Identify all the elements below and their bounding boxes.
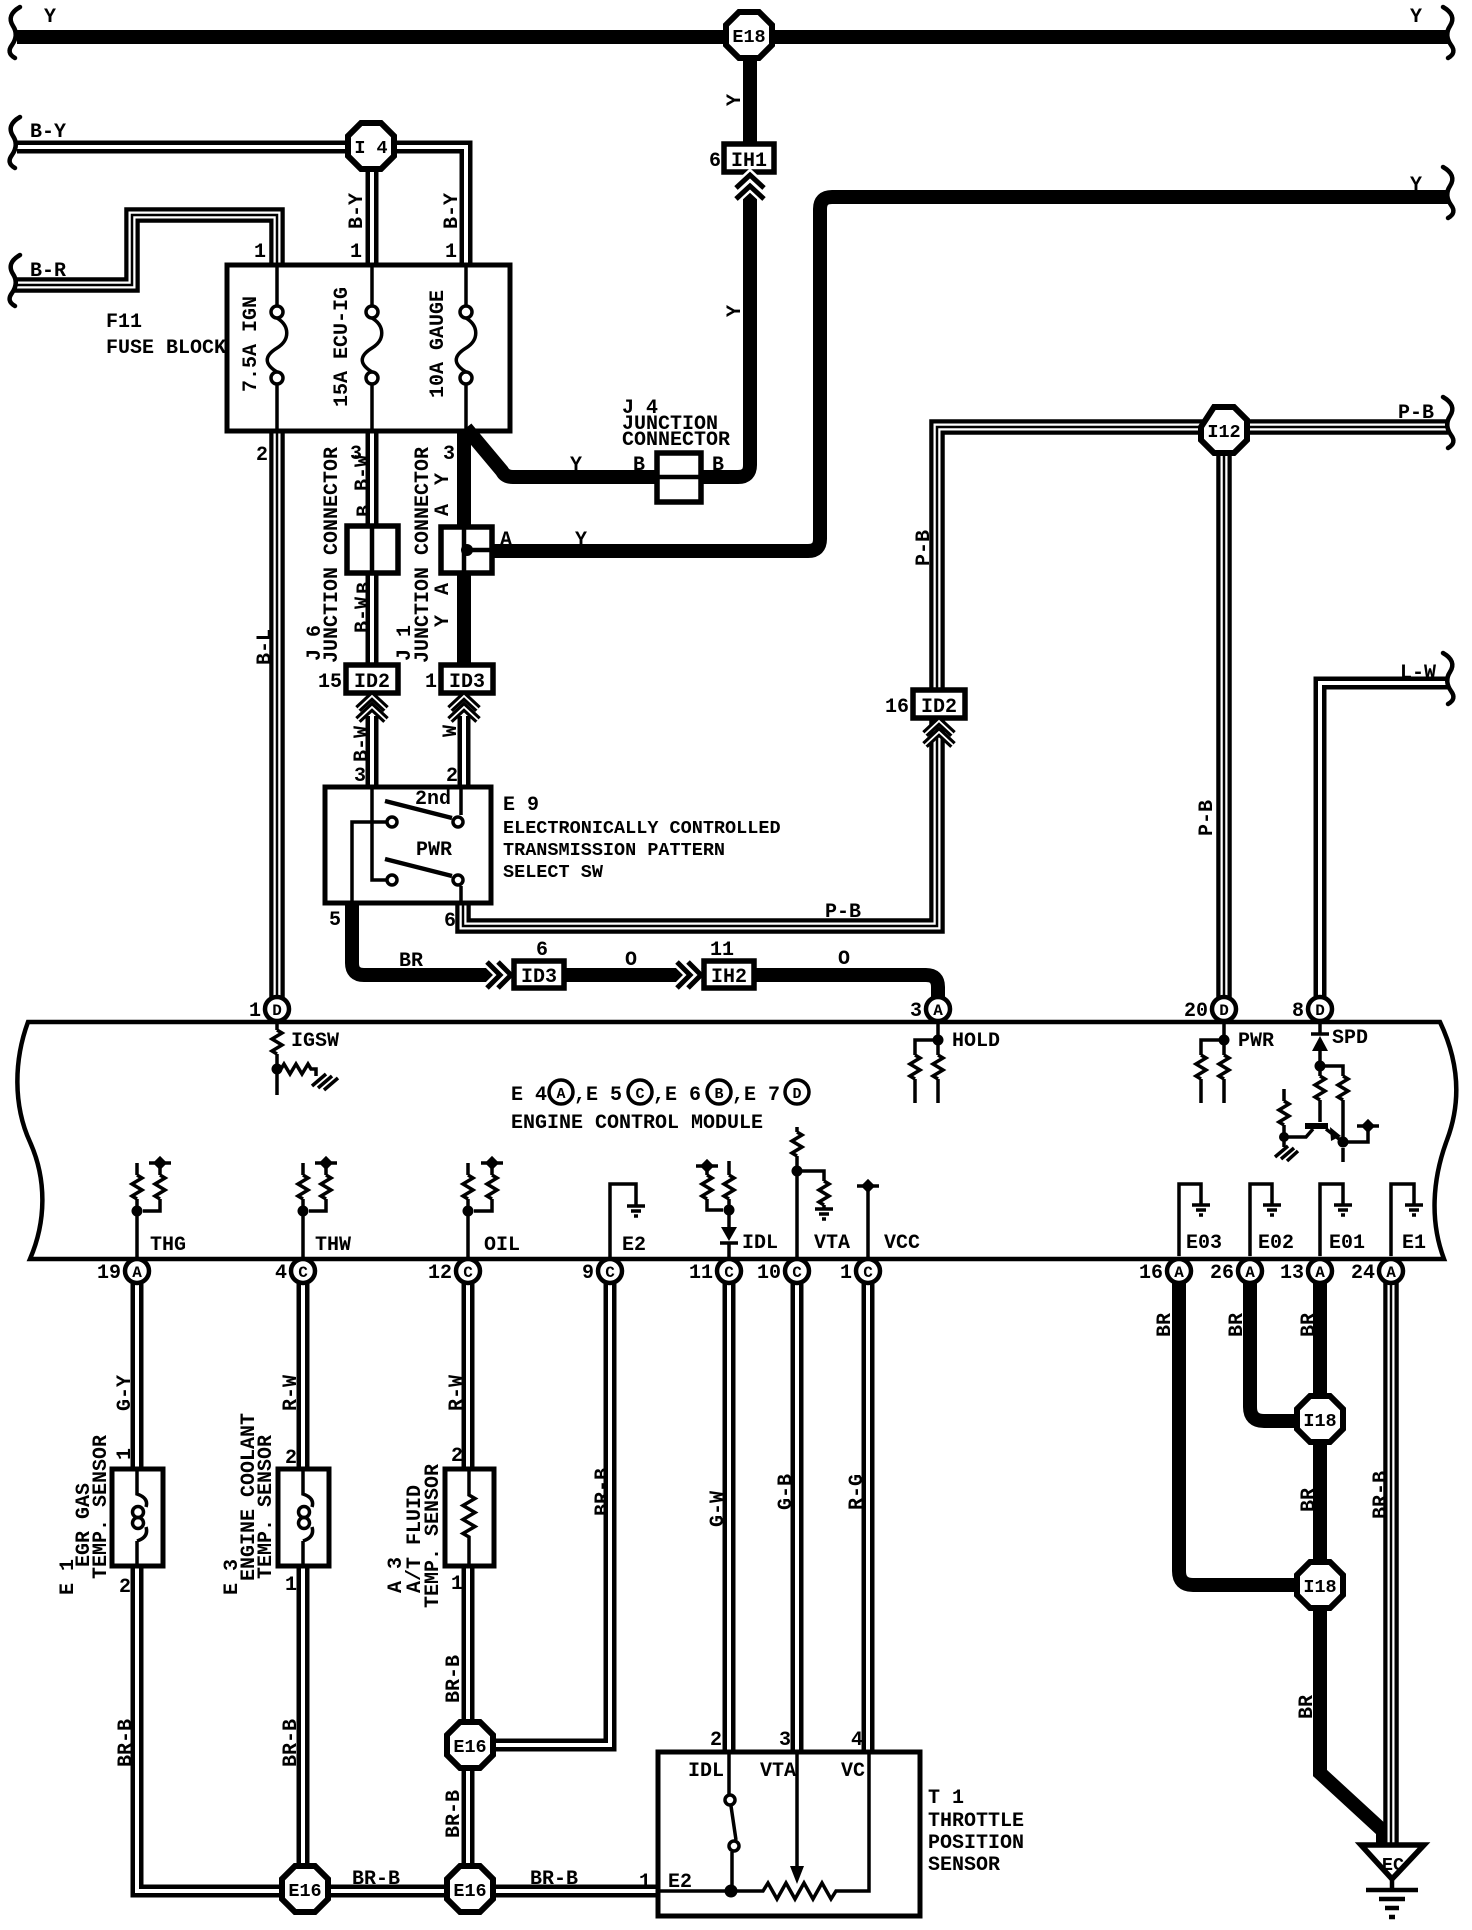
svg-text:Y: Y [1410, 6, 1422, 29]
wire P-B E9 pin6 right and up to ID2-16 connector [463, 714, 937, 926]
svg-text:R-W: R-W [280, 1375, 303, 1411]
wire P-B from I12 down to ECM pin 20 [1216, 440, 1232, 998]
wire Y thick: J1 output right, riser up, to right break [490, 197, 1448, 551]
svg-text:BR: BR [1298, 1488, 1321, 1512]
ECM pin 11 C [689, 1259, 741, 1285]
svg-text:I 4: I 4 [354, 138, 387, 159]
svg-text:ENGINE CONTROL MODULE: ENGINE CONTROL MODULE [511, 1112, 763, 1135]
connector octagon E16 bottom middle [447, 1866, 493, 1912]
svg-text:E1: E1 [1402, 1232, 1426, 1255]
wire G-Y ECM pin19 to E1 sensor [131, 1282, 144, 1469]
connector box ID3 with pin 1 [425, 665, 493, 694]
svg-text:,E 6: ,E 6 [653, 1084, 701, 1107]
connector octagon I12 [1201, 407, 1247, 453]
svg-text:C: C [463, 1264, 473, 1282]
VTA divider resistors [792, 1127, 829, 1258]
ECM pin 9 C [582, 1259, 622, 1285]
supply tap OIL [481, 1156, 503, 1170]
wire B-L from fuse IGN pin 2 down to ECM pin 1 [269, 432, 285, 998]
E9 internal wiring pin6 from PWR contact [459, 886, 463, 903]
svg-text:THROTTLE: THROTTLE [928, 1810, 1024, 1833]
svg-text:O: O [838, 948, 850, 971]
svg-text:4: 4 [851, 1729, 863, 1752]
svg-text:E16: E16 [453, 1881, 486, 1902]
svg-text:P-B: P-B [913, 530, 936, 566]
wire Y thick: J1 bottom down to ID3 connector [457, 573, 471, 667]
svg-text:1: 1 [425, 671, 437, 694]
ECM pin 1 C [840, 1259, 880, 1285]
svg-text:4: 4 [275, 1262, 287, 1285]
SPD circuit: diode, resistors, transistor [1311, 1022, 1329, 1066]
connector box ID3 on BR wire with pin 6 [514, 939, 564, 989]
connector octagon I18 lower [1297, 1562, 1343, 1608]
supply tap THW [315, 1156, 337, 1170]
svg-text:2: 2 [710, 1729, 722, 1752]
switch blade 2nd [385, 801, 452, 818]
ECM band outline [17, 1022, 1456, 1259]
svg-text:B-L: B-L [254, 629, 277, 665]
sensor box E3 engine coolant temp with coil [278, 1469, 329, 1566]
connector octagon I4 [348, 123, 394, 169]
svg-text:ID3: ID3 [521, 966, 557, 989]
break symbol right on wire Y lower [1443, 167, 1453, 218]
wire B-R from left break to fuse IGN pin 1 [14, 215, 277, 285]
connector octagon E16 bottom left [282, 1866, 328, 1912]
svg-text:IDL: IDL [742, 1232, 778, 1255]
svg-text:EC: EC [1382, 1855, 1404, 1876]
svg-text:13: 13 [1280, 1262, 1304, 1285]
svg-text:BR-B: BR-B [280, 1719, 303, 1767]
svg-text:12: 12 [428, 1262, 452, 1285]
svg-text:THG: THG [150, 1234, 186, 1257]
connector octagon E18 [726, 12, 772, 58]
svg-text:Y: Y [432, 473, 455, 485]
svg-text:1: 1 [350, 241, 362, 264]
connector octagon E16 first (A3 column) [447, 1722, 493, 1768]
svg-text:VTA: VTA [760, 1760, 796, 1783]
svg-text:1: 1 [254, 241, 266, 264]
wire BR/O thick: E9 pin5 through ID3 and IH2 to ECM pin 3 [352, 901, 938, 998]
earth ground below EC [1366, 1879, 1418, 1917]
svg-text:3: 3 [443, 443, 455, 466]
THW pull-up resistors [298, 1163, 331, 1258]
svg-text:BR-B: BR-B [443, 1790, 466, 1838]
svg-text:I18: I18 [1303, 1577, 1336, 1598]
svg-text:10A GAUGE: 10A GAUGE [427, 290, 450, 398]
svg-text:2: 2 [119, 1576, 131, 1599]
svg-text:P-B: P-B [1196, 800, 1219, 836]
svg-text:16: 16 [1139, 1262, 1163, 1285]
svg-text:A: A [132, 1264, 142, 1282]
svg-text:SPD: SPD [1332, 1027, 1368, 1050]
earth ground E01 [1334, 1205, 1352, 1215]
wire Y from IH1 chevron down to J4 output level [701, 174, 750, 477]
ECM pin 3 A [910, 997, 950, 1023]
wire W ID3 chevron down to E9 pin 2 [458, 716, 471, 789]
svg-text:1: 1 [249, 1000, 261, 1023]
E03 internal ground [1179, 1184, 1201, 1256]
svg-text:A: A [1315, 1264, 1325, 1282]
wire BR thick: ECM pin13 down through I18 connectors to EC ground [1313, 1282, 1327, 1398]
svg-text:2: 2 [256, 444, 268, 467]
svg-text:ELECTRONICALLY CONTROLLED: ELECTRONICALLY CONTROLLED [503, 818, 781, 839]
svg-text:L-W: L-W [1400, 662, 1436, 685]
earth ground E2 [627, 1206, 645, 1216]
svg-text:B-W: B-W [351, 726, 374, 762]
supply tap THG [149, 1156, 171, 1170]
E1 internal ground [1391, 1184, 1414, 1256]
ECM pin 1 D [249, 997, 289, 1023]
fuse 10A GAUGE [456, 267, 476, 429]
VCC supply tap [857, 1179, 879, 1258]
svg-text:B-Y: B-Y [30, 121, 66, 144]
svg-text:3: 3 [910, 1000, 922, 1023]
wire G-W ECM pin11 to T1 IDL pin2 [723, 1282, 736, 1752]
svg-text:Y: Y [432, 615, 455, 627]
switch contact circles 2nd [387, 817, 463, 827]
chevron arrows into IH1 [736, 175, 764, 199]
svg-text:D: D [1219, 1002, 1229, 1020]
ECM pin 8 D [1292, 997, 1332, 1023]
wire BR-B bottom row E16 to T1 pin1 E2 [494, 1885, 658, 1898]
E01 internal ground [1320, 1184, 1343, 1256]
ECM pin 16 A [1139, 1259, 1191, 1285]
svg-text:B-R: B-R [30, 260, 66, 283]
break symbol right on wire P-B [1443, 397, 1453, 448]
ECM pin 10 C [757, 1259, 809, 1285]
wire BR-B between E16 octagons vertical [462, 1769, 475, 1866]
E02 internal ground [1250, 1184, 1272, 1256]
SPD base resistor to chassis ground [1279, 1089, 1313, 1137]
svg-text:BR: BR [1298, 1313, 1321, 1337]
THG pull-up resistors [132, 1163, 165, 1258]
svg-text:2: 2 [451, 1445, 463, 1468]
svg-text:1: 1 [445, 241, 457, 264]
ECM pin 20 D [1184, 997, 1236, 1023]
wire BR thick: ECM pin16 down and right to I18 [1179, 1282, 1299, 1585]
switch E9 box [325, 787, 491, 903]
T1 potentiometer resistor [731, 1752, 869, 1899]
svg-text:TEMP. SENSOR: TEMP. SENSOR [422, 1464, 445, 1608]
PWR circuit: two resistors [1196, 1022, 1229, 1103]
svg-text:1: 1 [285, 1574, 297, 1597]
svg-text:SENSOR: SENSOR [928, 1854, 1000, 1877]
svg-text:7.5A IGN: 7.5A IGN [240, 296, 263, 392]
T1 IDL switch [725, 1752, 739, 1891]
svg-text:,E 5: ,E 5 [574, 1084, 622, 1107]
diode IDL (cathode down) [721, 1227, 737, 1241]
svg-text:E02: E02 [1258, 1232, 1294, 1255]
svg-text:19: 19 [97, 1262, 121, 1285]
junction connector J1 box [441, 527, 492, 573]
svg-text:B: B [354, 505, 377, 517]
svg-text:FUSE BLOCK: FUSE BLOCK [106, 337, 226, 360]
ECM pin 24 A [1351, 1259, 1403, 1285]
junction connector J4 box [657, 453, 701, 502]
svg-text:C: C [724, 1264, 734, 1282]
svg-text:VTA: VTA [814, 1232, 850, 1255]
ECM pin 19 A [97, 1259, 149, 1285]
svg-text:THW: THW [315, 1234, 351, 1257]
connector octagon I18 upper [1297, 1396, 1343, 1442]
svg-text:PWR: PWR [416, 839, 452, 862]
svg-text:A: A [1174, 1264, 1184, 1282]
svg-text:A: A [556, 1086, 565, 1103]
IGSW circuit: resistor and resistor to chassis ground [272, 1022, 316, 1095]
svg-text:TEMP. SENSOR: TEMP. SENSOR [255, 1435, 278, 1579]
svg-text:E 4: E 4 [511, 1084, 547, 1107]
wire Y thick: fuse GAUGE pin 3 down to J1 junction connector [457, 430, 471, 527]
svg-text:1: 1 [114, 1448, 137, 1460]
svg-text:JUNCTION CONNECTOR: JUNCTION CONNECTOR [412, 447, 435, 663]
svg-text:BR-B: BR-B [530, 1868, 578, 1891]
svg-text:E18: E18 [732, 27, 765, 48]
connector box IH2 with pin 11 [704, 939, 754, 989]
wire BR-B ECM pin24 down to EC ground [1383, 1282, 1399, 1845]
break symbol left on wire Y [10, 7, 20, 58]
svg-text:24: 24 [1351, 1262, 1375, 1285]
svg-text:Y: Y [1410, 174, 1422, 197]
svg-text:1: 1 [451, 1573, 463, 1596]
svg-text:BR: BR [1226, 1313, 1249, 1337]
wire G-B ECM pin10 to T1 VTA pin3 [791, 1282, 804, 1752]
svg-text:C: C [298, 1264, 308, 1282]
svg-text:E03: E03 [1186, 1232, 1222, 1255]
svg-text:,E 7: ,E 7 [732, 1084, 780, 1107]
svg-text:POSITION: POSITION [928, 1832, 1024, 1855]
svg-text:6: 6 [709, 150, 721, 173]
svg-text:1: 1 [639, 1871, 651, 1894]
svg-text:C: C [792, 1264, 802, 1282]
svg-text:Y: Y [44, 6, 56, 29]
svg-text:B: B [714, 1086, 723, 1103]
wire BR-B E3 sensor pin1 down to E16 [297, 1566, 310, 1866]
junction connector J6 box [347, 526, 398, 573]
supply tap IDL [696, 1159, 718, 1173]
sensor box E1 EGR gas temp with coil [112, 1469, 163, 1566]
svg-text:2nd: 2nd [415, 788, 451, 811]
throttle position sensor T1 box [658, 1752, 920, 1916]
wire R-W ECM pin12 to A3 sensor [462, 1282, 475, 1469]
svg-text:D: D [792, 1086, 801, 1103]
chevron arrows into ID2-16 [925, 721, 953, 745]
wire BR-B A3 sensor pin1 down to E16 [462, 1566, 475, 1721]
wire L-W from right break to ECM pin 8 [1320, 683, 1448, 998]
svg-text:BR: BR [399, 950, 423, 973]
svg-text:C: C [863, 1264, 873, 1282]
chassis ground SPD [1275, 1141, 1298, 1161]
wire BR-B ECM pin9 E2 down and left to E16 [494, 1282, 610, 1745]
chevron arrows into ID3 [450, 696, 478, 720]
svg-text:15: 15 [318, 671, 342, 694]
svg-text:P-B: P-B [1398, 402, 1434, 425]
svg-text:PWR: PWR [1238, 1030, 1274, 1053]
switch contact circles PWR [387, 875, 463, 885]
svg-text:16: 16 [885, 696, 909, 719]
svg-text:BR: BR [1154, 1313, 1177, 1337]
svg-text:B: B [633, 454, 645, 477]
svg-text:VC: VC [841, 1760, 865, 1783]
ground triangle EC [1361, 1845, 1424, 1879]
wire Y from E18 down to IH1 [743, 57, 757, 146]
svg-text:A: A [432, 583, 455, 595]
svg-text:BR-B: BR-B [115, 1719, 138, 1767]
svg-text:BR-B: BR-B [352, 1868, 400, 1891]
earth ground VTA [815, 1209, 833, 1219]
wire Y main battery feed (thick, top) [17, 30, 1448, 44]
T1 E2 internal line [658, 1889, 731, 1893]
svg-text:A: A [1386, 1264, 1396, 1282]
svg-text:Y: Y [570, 454, 582, 477]
connector box IH1 with pin 6 [709, 144, 774, 173]
ECM pin 12 C [428, 1259, 480, 1285]
wire B-Y branch below I4 to fuse ECU-IG pin 1 [366, 160, 379, 265]
E9 internal wiring pin2 to 2nd contact [459, 789, 463, 815]
wire R-G ECM pin1 to T1 VC pin4 [862, 1282, 875, 1752]
chevron arrows into ID2 [358, 696, 386, 720]
earth ground E03 [1192, 1205, 1210, 1215]
wire B-Y double from left break through I4 to fuse pins 1 [17, 147, 466, 265]
E9 internal wiring pin5 side [352, 822, 386, 903]
svg-text:11: 11 [710, 939, 734, 962]
wire BR-B E1 sensor pin2 down and right to E16 [137, 1566, 283, 1891]
svg-text:R-G: R-G [846, 1474, 869, 1510]
svg-text:IGSW: IGSW [291, 1030, 339, 1053]
svg-text:A: A [432, 504, 455, 516]
svg-text:10: 10 [757, 1262, 781, 1285]
sensor box A3 AT fluid temp with resistor [445, 1469, 494, 1566]
chevron arrows into ID3 second (right pointing) [487, 962, 511, 988]
svg-text:TEMP. SENSOR: TEMP. SENSOR [90, 1435, 113, 1579]
SPD collector resistor [1315, 1066, 1325, 1122]
diode SPD (cathode up) [1312, 1036, 1328, 1051]
svg-text:BR: BR [1296, 1695, 1319, 1719]
svg-text:BR-B: BR-B [1370, 1471, 1393, 1519]
supply tap SPD [1357, 1119, 1379, 1133]
svg-text:E16: E16 [453, 1737, 486, 1758]
fuse block F11 box [227, 265, 510, 431]
svg-text:BR-B: BR-B [443, 1655, 466, 1703]
connector box ID2 pin 16 [885, 690, 965, 719]
svg-text:TRANSMISSION PATTERN: TRANSMISSION PATTERN [503, 840, 725, 861]
svg-text:26: 26 [1210, 1262, 1234, 1285]
transistor SPD base bar [1305, 1123, 1328, 1129]
SPD right resistor to emitter node [1320, 1066, 1348, 1142]
svg-text:A: A [1245, 1264, 1255, 1282]
E2 internal ground [610, 1184, 636, 1258]
HOLD circuit: two resistors [910, 1022, 943, 1103]
IDL resistors and diode [702, 1161, 734, 1227]
break symbol left on wire B-R [10, 255, 20, 306]
svg-text:C: C [605, 1264, 615, 1282]
svg-text:3: 3 [779, 1729, 791, 1752]
svg-text:W: W [440, 725, 463, 737]
chassis ground IGSW [312, 1074, 338, 1090]
svg-text:E 9: E 9 [503, 794, 539, 817]
svg-text:9: 9 [582, 1262, 594, 1285]
break symbol right on wire Y [1443, 7, 1453, 58]
OIL pull-up resistors [463, 1163, 497, 1258]
svg-text:A: A [500, 529, 512, 552]
ECM pin 4 C [275, 1259, 315, 1285]
svg-text:G-Y: G-Y [114, 1375, 137, 1411]
svg-text:Y: Y [724, 305, 747, 317]
fuse 15A ECU-IG [362, 267, 382, 429]
connector box ID2 with pin 15 [318, 665, 398, 694]
svg-text:20: 20 [1184, 1000, 1208, 1023]
svg-text:CONNECTOR: CONNECTOR [622, 429, 730, 452]
svg-text:HOLD: HOLD [952, 1030, 1000, 1053]
svg-text:VCC: VCC [884, 1232, 920, 1255]
svg-text:SELECT SW: SELECT SW [503, 862, 604, 883]
svg-text:D: D [272, 1002, 282, 1020]
svg-text:R-W: R-W [446, 1375, 469, 1411]
T1 VTA wiper arrow [795, 1752, 799, 1868]
svg-text:I12: I12 [1207, 422, 1240, 443]
svg-text:I18: I18 [1303, 1411, 1336, 1432]
wire B-W ID2 chevron down to E9 pin 3 [366, 716, 379, 789]
svg-text:1: 1 [840, 1262, 852, 1285]
E9 internal wiring pin3 to PWR contact [372, 789, 386, 880]
ECM pin 13 A [1280, 1259, 1332, 1285]
svg-text:6: 6 [536, 939, 548, 962]
svg-text:6: 6 [444, 910, 456, 933]
svg-text:E01: E01 [1329, 1232, 1365, 1255]
svg-text:G-W: G-W [707, 1491, 730, 1527]
svg-text:15A ECU-IG: 15A ECU-IG [331, 287, 354, 407]
svg-text:Y: Y [575, 529, 587, 552]
break symbol left on wire B-Y [10, 117, 20, 168]
break symbol right on wire L-W [1443, 653, 1453, 704]
svg-text:JUNCTION CONNECTOR: JUNCTION CONNECTOR [321, 447, 344, 663]
svg-text:B-W: B-W [352, 597, 375, 633]
svg-text:B-W: B-W [352, 455, 375, 491]
svg-text:ID3: ID3 [449, 671, 485, 694]
svg-text:B-Y: B-Y [441, 193, 464, 229]
wire BR thick: ECM pin26 down and right to I18 [1250, 1282, 1299, 1421]
ECM pin 26 A [1210, 1259, 1262, 1285]
svg-text:D: D [1315, 1002, 1325, 1020]
wire BR-B bottom row E16 to E16 [328, 1885, 446, 1898]
earth ground E02 [1263, 1205, 1281, 1215]
svg-text:B-Y: B-Y [346, 193, 369, 229]
svg-text:E16: E16 [288, 1881, 321, 1902]
wire B-W J6 to ID2 connector [366, 572, 379, 667]
transistor SPD emitter with arrow [1326, 1129, 1343, 1142]
SPD emitter node to supply arrow [1343, 1130, 1368, 1162]
svg-text:OIL: OIL [484, 1234, 520, 1257]
wire R-W ECM pin4 to E3 sensor [297, 1282, 310, 1469]
svg-text:P-B: P-B [825, 901, 861, 924]
fuse 7.5A IGN [267, 267, 287, 429]
svg-text:B: B [712, 454, 724, 477]
svg-text:O: O [625, 949, 637, 972]
svg-text:IDL: IDL [688, 1760, 724, 1783]
label E 4 A E 5 C E 6 B E 7 D [511, 1080, 809, 1107]
svg-text:F11: F11 [106, 311, 142, 334]
svg-text:C: C [635, 1086, 644, 1103]
svg-text:BR-B: BR-B [592, 1468, 615, 1516]
wire P-B from ID2-16 up and right through I12 to right break [937, 427, 1448, 692]
svg-text:5: 5 [329, 909, 341, 932]
svg-text:11: 11 [689, 1262, 713, 1285]
svg-text:E2: E2 [622, 1234, 646, 1257]
svg-text:8: 8 [1292, 1000, 1304, 1023]
svg-text:T 1: T 1 [928, 1787, 964, 1810]
svg-text:G-B: G-B [775, 1474, 798, 1510]
wire Y thick: fuse GAUGE pin 3 diagonal into J4 junction connector [466, 428, 657, 477]
chevron arrows into IH2 (right pointing) [677, 962, 701, 988]
